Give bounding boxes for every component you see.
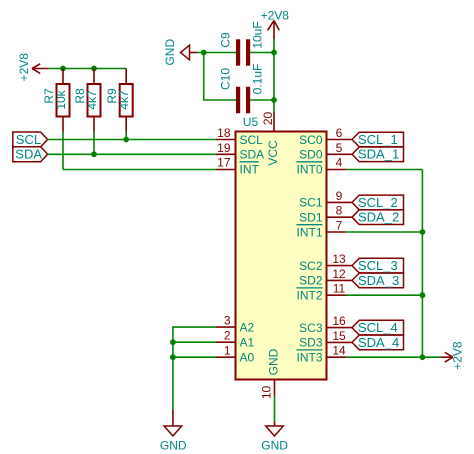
pin 11 INT2 <box>296 282 346 303</box>
node C10-VCC <box>271 97 277 103</box>
wire A1 <box>173 341 216 343</box>
global label SDA_4 <box>352 335 404 350</box>
svg-text:8: 8 <box>336 204 343 218</box>
svg-text:A1: A1 <box>240 336 255 350</box>
pin 13 SC2 <box>299 252 352 273</box>
svg-text:SD3: SD3 <box>299 336 323 350</box>
wire INT2 to bus <box>346 294 422 296</box>
svg-text:SDA_1: SDA_1 <box>358 147 399 162</box>
node GND branch <box>201 50 207 56</box>
svg-text:SC1: SC1 <box>299 196 323 210</box>
svg-text:+2V8: +2V8 <box>450 341 464 370</box>
wire R8 to SDA row <box>93 132 95 155</box>
svg-text:20: 20 <box>261 112 275 126</box>
pin 17 INT <box>216 156 260 177</box>
wire SCL row <box>48 139 216 141</box>
node C9-VCC <box>271 50 277 56</box>
svg-text:C9: C9 <box>218 32 232 48</box>
node R8-SDA <box>91 151 97 157</box>
svg-text:INT3: INT3 <box>296 351 322 365</box>
pin 9 SC1 <box>299 189 352 210</box>
svg-text:9: 9 <box>336 189 343 203</box>
svg-text:VCC: VCC <box>266 140 280 166</box>
wire INT1 to bus <box>346 231 422 233</box>
global label SDA <box>13 147 48 162</box>
wire C9 to VCC line <box>250 52 274 54</box>
svg-text:1: 1 <box>224 344 231 358</box>
wire top rail <box>48 68 126 70</box>
svg-text:SD1: SD1 <box>299 211 323 225</box>
pin 5 SD0 <box>299 141 352 162</box>
global label SCL_4 <box>352 320 404 335</box>
svg-text:INT0: INT0 <box>296 162 322 176</box>
node A1 <box>170 339 176 345</box>
svg-text:17: 17 <box>217 156 231 170</box>
svg-text:SCL_2: SCL_2 <box>358 195 398 210</box>
global label SCL_3 <box>352 258 404 273</box>
node rail-R8 <box>91 66 97 72</box>
wire SDA row <box>48 153 216 155</box>
svg-text:10uF: 10uF <box>250 21 264 48</box>
svg-text:SC3: SC3 <box>299 321 323 335</box>
node A0 <box>170 354 176 360</box>
node rail-R7 <box>60 66 66 72</box>
pin 2 A1 <box>216 329 255 350</box>
wire INT row <box>63 169 216 171</box>
pin 18 SCL <box>216 126 263 147</box>
svg-text:SD2: SD2 <box>299 274 323 288</box>
pin 19 SDA <box>216 141 264 162</box>
pin 16 SC3 <box>299 314 352 335</box>
svg-text:GND: GND <box>261 439 288 453</box>
wire GND to C9 <box>197 52 236 54</box>
svg-text:13: 13 <box>332 252 346 266</box>
svg-text:11: 11 <box>333 282 346 296</box>
pin 14 INT3 <box>296 344 346 365</box>
global label SDA_3 <box>352 273 404 288</box>
node bus-INT2 <box>420 292 426 298</box>
pin 7 INT1 <box>296 219 346 240</box>
pin 20 VCC <box>261 112 280 166</box>
wire A0 <box>173 356 216 358</box>
svg-text:4: 4 <box>336 156 343 170</box>
svg-text:SDA: SDA <box>240 148 265 162</box>
wire INT bus vertical <box>421 170 423 358</box>
global label SCL_2 <box>352 195 404 210</box>
wire A2 <box>173 327 216 410</box>
svg-text:SCL_4: SCL_4 <box>358 320 398 335</box>
svg-text:SCL: SCL <box>240 133 264 147</box>
svg-text:+2V8: +2V8 <box>17 53 31 82</box>
svg-text:12: 12 <box>332 267 346 281</box>
svg-text:U5: U5 <box>243 115 259 129</box>
pin 6 SC0 <box>299 126 352 147</box>
svg-text:GND: GND <box>267 348 281 375</box>
svg-text:INT2: INT2 <box>296 289 322 303</box>
wire VCC vertical <box>273 39 275 112</box>
svg-text:+2V8: +2V8 <box>261 9 290 23</box>
node bus-INT1 <box>420 229 426 235</box>
ground GND (top, for C9/C10) <box>163 39 197 66</box>
power +2V8 (top-left) <box>17 53 48 82</box>
wire C10 to VCC line <box>250 99 274 101</box>
svg-text:4k7: 4k7 <box>85 90 99 110</box>
resistor R9 <box>105 69 133 132</box>
global label SCL <box>13 132 48 147</box>
svg-text:10k: 10k <box>54 89 68 109</box>
svg-text:SDA: SDA <box>15 147 42 162</box>
node bus-INT3 <box>420 354 426 360</box>
wire R7 to INT row <box>62 132 64 170</box>
svg-text:19: 19 <box>217 141 231 155</box>
global label SCL_1 <box>352 132 404 147</box>
svg-text:3: 3 <box>224 314 231 328</box>
power +2V8 (bottom right) <box>441 341 465 370</box>
svg-text:GND: GND <box>163 39 177 66</box>
svg-text:GND: GND <box>160 439 187 453</box>
svg-text:INT: INT <box>240 162 260 176</box>
svg-text:SC2: SC2 <box>299 259 323 273</box>
svg-text:SCL_1: SCL_1 <box>358 132 398 147</box>
pin 8 SD1 <box>299 204 352 225</box>
svg-text:SCL_3: SCL_3 <box>358 258 398 273</box>
svg-text:15: 15 <box>332 329 346 343</box>
svg-text:18: 18 <box>217 126 231 140</box>
pin 1 A0 <box>216 344 255 365</box>
pin 4 INT0 <box>296 156 346 177</box>
svg-text:SD0: SD0 <box>299 148 323 162</box>
svg-text:SDA_3: SDA_3 <box>358 273 399 288</box>
svg-text:10: 10 <box>260 386 274 400</box>
svg-text:A2: A2 <box>240 320 255 334</box>
svg-text:0.1uF: 0.1uF <box>250 64 264 95</box>
resistor R7 <box>42 69 70 132</box>
resistor R8 <box>73 69 101 132</box>
svg-text:16: 16 <box>332 314 346 328</box>
wire R9 to SCL row <box>125 132 127 140</box>
power +2V8 (top) <box>261 9 290 40</box>
svg-text:INT1: INT1 <box>296 225 322 239</box>
svg-text:6: 6 <box>336 126 343 140</box>
svg-text:7: 7 <box>336 219 343 233</box>
ground (bottom right) <box>261 422 288 453</box>
svg-text:5: 5 <box>336 141 343 155</box>
svg-text:SC0: SC0 <box>299 133 323 147</box>
pin 3 A2 <box>216 314 255 335</box>
svg-text:14: 14 <box>332 344 346 358</box>
capacitor C9 <box>218 21 264 65</box>
node R9-SCL <box>123 137 129 143</box>
svg-text:A0: A0 <box>240 351 255 365</box>
pin 15 SD3 <box>299 329 352 350</box>
svg-text:SDA_4: SDA_4 <box>358 335 399 350</box>
op-amp U5 body <box>236 115 327 380</box>
global label SDA_2 <box>352 210 404 225</box>
pin 12 SD2 <box>299 267 352 288</box>
svg-text:4k7: 4k7 <box>117 90 131 110</box>
capacitor C10 <box>218 64 264 114</box>
wire INT3 to power <box>346 356 440 358</box>
wire pin10 to ground <box>274 396 276 422</box>
ground (bottom left) <box>160 410 187 453</box>
svg-text:C10: C10 <box>218 68 232 90</box>
global label SDA_1 <box>352 147 404 162</box>
svg-text:SCL: SCL <box>16 132 41 147</box>
wire INT0 to bus <box>346 169 422 171</box>
pin 10 GND <box>260 348 281 399</box>
wire branch down to C10 <box>204 53 236 101</box>
svg-text:2: 2 <box>224 329 231 343</box>
svg-text:SDA_2: SDA_2 <box>358 210 399 225</box>
